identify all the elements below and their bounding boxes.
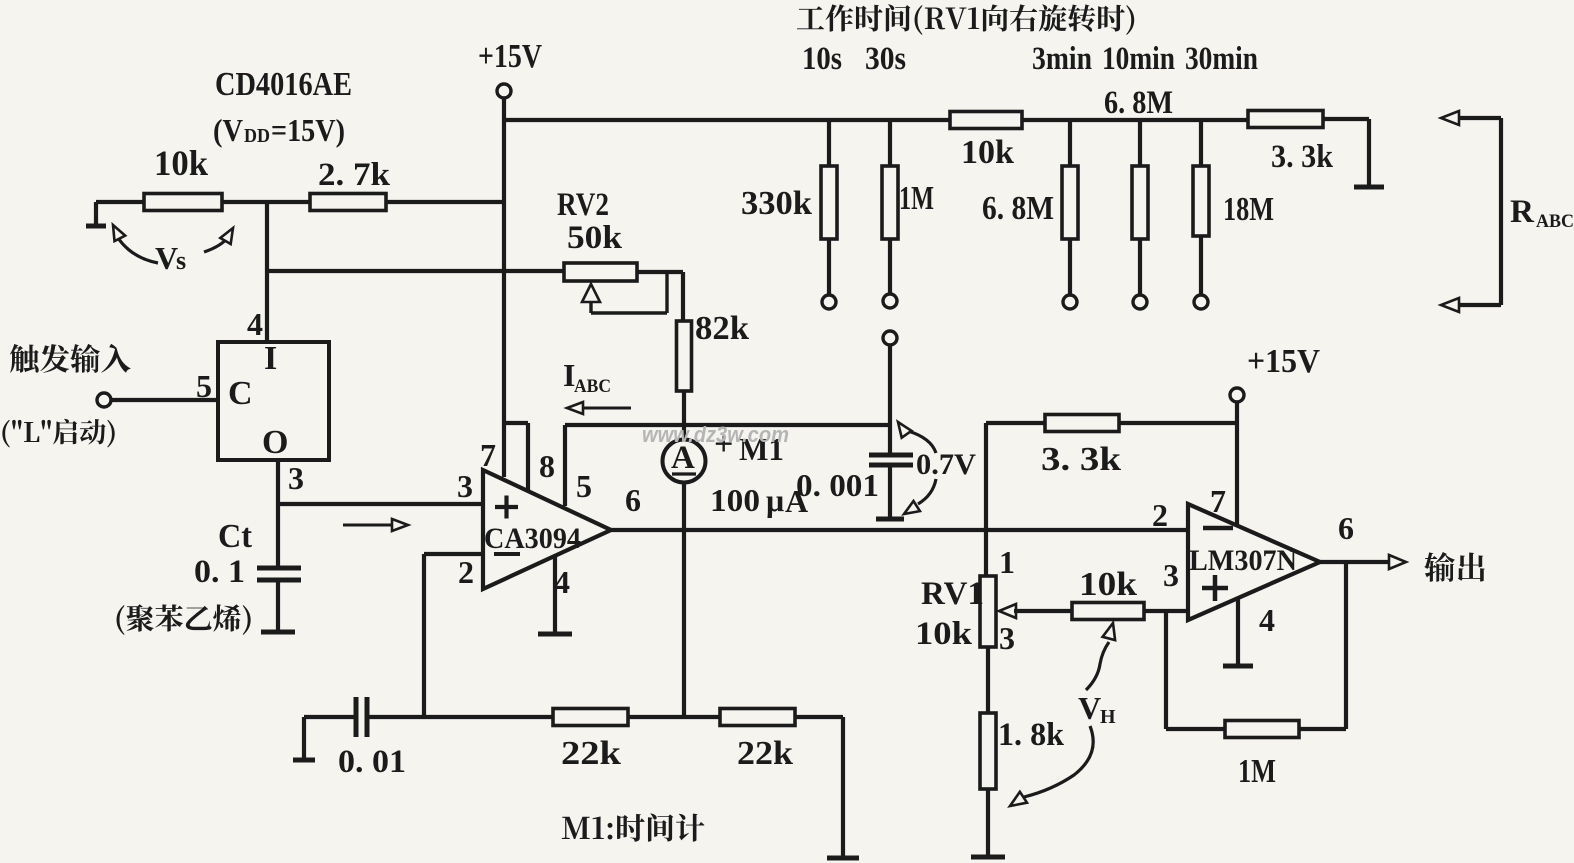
svg-text:=15V): =15V) (271, 112, 345, 148)
annotation VH lower arrow (1024, 726, 1093, 797)
svg-text:8: 8 (539, 448, 555, 484)
svg-text:3: 3 (999, 620, 1015, 656)
wire between 22k (628, 715, 720, 719)
wire output (1320, 560, 1390, 564)
RV2 wiper arrow (582, 284, 600, 302)
svg-text:10min: 10min (1102, 41, 1175, 77)
svg-text:30s: 30s (865, 41, 906, 77)
resistor 22k second (720, 709, 795, 726)
wire Ct to ground (276, 580, 280, 631)
annotation VH upper arrow (1086, 642, 1109, 690)
svg-text:ABC: ABC (574, 376, 611, 397)
svg-text:H: H (1100, 706, 1116, 728)
svg-text:7: 7 (1210, 483, 1226, 519)
annotation Vs arrows (118, 238, 158, 263)
svg-text:s: s (176, 246, 186, 275)
svg-text:+15V: +15V (478, 38, 542, 75)
wire O output down (276, 460, 280, 568)
power +15V terminal right (1230, 388, 1244, 402)
capacitor Ct 0.1 (257, 566, 301, 571)
svg-text:5: 5 (576, 468, 592, 504)
potentiometer RV2 50k (564, 263, 637, 281)
resistor 10k input (96, 200, 144, 204)
wire 3.3k feed (986, 421, 1045, 425)
label L start (2, 419, 114, 448)
wire stub to 0.01 (304, 715, 355, 719)
svg-text:0.7V: 0.7V (916, 448, 976, 481)
IC CD4016 switch block (218, 342, 329, 460)
svg-text:18M: 18M (1223, 191, 1274, 228)
svg-text:CD4016AE: CD4016AE (215, 66, 352, 103)
svg-text:I: I (264, 340, 277, 377)
wire feedback up to pin3 (1164, 611, 1168, 729)
svg-text:(V: (V (213, 112, 243, 148)
ground LM307N pin4 (1223, 664, 1253, 669)
wire wiper to 10k (1014, 609, 1072, 613)
resistor 6.8M (3min) (1068, 120, 1072, 166)
svg-text:3: 3 (1163, 557, 1179, 593)
svg-text:22k: 22k (561, 735, 621, 772)
svg-text:0. 01: 0. 01 (338, 744, 406, 780)
resistor 18M (30min) (1199, 120, 1203, 166)
wire 10k to 2.7k (222, 200, 310, 204)
CA3094 plus marker (495, 505, 518, 509)
svg-text:6: 6 (1338, 510, 1354, 546)
svg-text:1M: 1M (1238, 753, 1276, 790)
svg-text:30min: 30min (1185, 41, 1258, 77)
annotation R_ABC bracket (1499, 118, 1503, 305)
svg-text:10k: 10k (915, 616, 973, 652)
svg-text:10k: 10k (961, 134, 1014, 171)
arrowhead output (1389, 555, 1406, 569)
wire 0.01 to 22k (367, 715, 553, 719)
svg-text:μ: μ (766, 482, 784, 518)
power +15V terminal left (497, 84, 511, 98)
svg-text:www.dz3w.com: www.dz3w.com (642, 422, 789, 447)
svg-text:V: V (1078, 690, 1101, 726)
wire pin5 up and right (563, 425, 567, 506)
svg-text:0. 1: 0. 1 (194, 554, 245, 590)
wire mid rail to RV2 (267, 269, 564, 273)
wire cap to bar (888, 465, 892, 517)
wire pin7-pin8 staple (505, 421, 528, 425)
wire feedback down (1344, 562, 1348, 729)
annotation I_ABC arrow (575, 407, 631, 410)
bar below 0.001 cap (876, 517, 904, 522)
svg-text:1: 1 (999, 544, 1015, 580)
resistor 10k feedback (1072, 603, 1144, 620)
resistor 3.3k right (1045, 415, 1119, 432)
wire pin2 left and down (424, 552, 483, 556)
resistor 82k (677, 321, 692, 391)
wire LM307N pin4 down (1236, 598, 1240, 664)
resistor 22k first (553, 709, 628, 726)
wire trigger to pin5 (111, 398, 218, 402)
resistor 330k (827, 120, 831, 166)
wire pin4 down (553, 556, 557, 633)
label polystyrene (117, 604, 251, 635)
wire RV1 to 1.8k (986, 647, 990, 713)
svg-text:3. 3k: 3. 3k (1041, 441, 1121, 478)
svg-text:LM307N: LM307N (1189, 544, 1297, 577)
svg-text:CA3094: CA3094 (484, 522, 581, 555)
wire CA3094 output to LM307N pin2 (611, 528, 1188, 532)
svg-text:6: 6 (625, 482, 641, 518)
CA3094 minus marker (494, 552, 520, 556)
svg-text:3. 3k: 3. 3k (1271, 139, 1334, 175)
wire 2.7k to +15V rail (386, 200, 504, 204)
wire RV2 right lead (637, 270, 683, 274)
svg-text:82k: 82k (695, 310, 749, 347)
svg-text:6. 8M: 6. 8M (1104, 85, 1173, 121)
resistor 6.8M (10min) (1138, 120, 1142, 166)
svg-text:4: 4 (247, 306, 263, 342)
svg-text:2: 2 (1152, 497, 1168, 533)
annotation current arrow right (343, 524, 400, 527)
wire 1M node down to cap (888, 345, 892, 455)
svg-text:3: 3 (288, 460, 304, 496)
wire +15V right down (1235, 402, 1239, 525)
resistor 3.3k top right (1248, 111, 1323, 128)
terminal trigger input (97, 393, 111, 407)
ground 1.8k (971, 855, 1005, 860)
op-amp LM307N triangle (1188, 504, 1320, 620)
ground Ct (261, 630, 295, 635)
svg-text:100: 100 (710, 482, 760, 518)
op-amp CA3094 triangle (483, 470, 611, 589)
resistor 1M (888, 120, 892, 166)
svg-text:O: O (262, 424, 288, 461)
svg-text:7: 7 (480, 437, 496, 473)
meter M1 circle (663, 440, 706, 483)
resistor 1.8k (980, 713, 996, 789)
wire O to CA3094 pin3 (278, 502, 483, 506)
svg-text:ABC: ABC (1536, 211, 1574, 232)
svg-text:RV2: RV2 (557, 187, 609, 223)
svg-text:10k: 10k (1079, 566, 1137, 603)
wire top bus segment 2 (1022, 118, 1248, 122)
stub 0.01 left (293, 758, 315, 763)
svg-text:22k: 22k (737, 735, 793, 772)
svg-text:6. 8M: 6. 8M (982, 190, 1054, 227)
ground bottom right (827, 856, 859, 861)
svg-text:50k: 50k (567, 220, 623, 256)
RV2 wiper link to right lead (591, 311, 667, 314)
svg-text:+15V: +15V (1247, 343, 1320, 380)
resistor 10k timing series (950, 112, 1022, 129)
svg-text:DD: DD (244, 125, 270, 147)
resistor 2.7k (310, 194, 386, 211)
svg-text:R: R (1510, 194, 1535, 230)
svg-text:1M: 1M (899, 180, 934, 217)
potentiometer RV1 10k (980, 576, 996, 647)
wire junction down to CD4016 pin4 (265, 202, 269, 342)
svg-text:330k: 330k (741, 185, 812, 222)
arrowhead R_ABC bottom (1441, 298, 1459, 312)
svg-text:3min: 3min (1032, 41, 1092, 77)
svg-text:0. 001: 0. 001 (796, 467, 879, 503)
wire 1.8k to ground (986, 789, 990, 856)
wire +15V vertical to CA3094 pin7 (502, 98, 506, 477)
wire 82k to meter (682, 391, 686, 441)
resistor 1M feedback (1225, 721, 1299, 738)
svg-text:3: 3 (457, 468, 473, 504)
label output (1424, 552, 1485, 582)
svg-text:10s: 10s (802, 41, 842, 77)
svg-text:2. 7k: 2. 7k (318, 157, 391, 193)
wire RV2 to 82k (681, 272, 685, 321)
svg-text:RV1: RV1 (921, 576, 984, 612)
wire meter down to 22k row (682, 481, 686, 717)
svg-text:10k: 10k (154, 143, 208, 183)
svg-text:V: V (155, 240, 178, 276)
input stub left (86, 224, 106, 229)
LM307N plus marker (1202, 586, 1228, 591)
svg-text:4: 4 (1259, 602, 1275, 638)
wire 10k to LM307N pin3 (1144, 609, 1188, 613)
svg-text:2: 2 (458, 554, 474, 590)
RV1 wiper arrow (999, 604, 1016, 618)
LM307N minus marker (1203, 526, 1233, 531)
annotation 0.7V arrows (908, 431, 936, 453)
label work-time title (797, 4, 1134, 35)
svg-text:Ct: Ct (218, 518, 253, 555)
svg-text:C: C (228, 375, 253, 412)
terminal 30s lower contact (883, 331, 897, 345)
arrowhead R_ABC top (1441, 111, 1459, 125)
wire top bus right end down (1323, 117, 1369, 121)
wire feedback left (1166, 727, 1225, 731)
wire 22k right end down (795, 715, 843, 719)
capacitor 0.01 (354, 697, 359, 737)
label M1 timer note (562, 813, 705, 841)
wire 3.3k corner down to RV1 (984, 423, 988, 576)
svg-text:1. 8k: 1. 8k (998, 717, 1065, 753)
wire feedback bottom (1299, 727, 1346, 731)
wire top bus segment 1 (504, 118, 950, 122)
label trigger input (10, 344, 131, 373)
ground stub top right (1354, 185, 1384, 190)
capacitor 0.001 (869, 453, 913, 458)
ground pin4 (538, 632, 572, 637)
